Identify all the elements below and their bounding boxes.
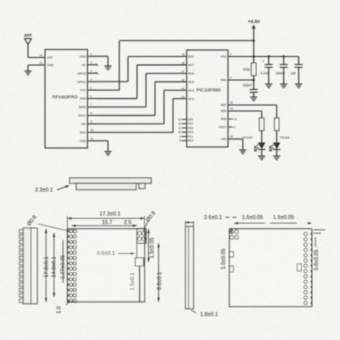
ground (RXLED) xyxy=(258,156,265,160)
power +3.3V xyxy=(248,19,261,32)
dimension 15.7 xyxy=(72,220,137,227)
ground (antenna) xyxy=(24,71,31,75)
wire U2 VSS to ground xyxy=(228,139,243,150)
capacitor 4.7uF xyxy=(261,57,273,85)
ground (100nF) xyxy=(250,97,257,101)
NC mark U1 pin2 xyxy=(96,64,98,66)
wire U1 pin8 to U2 pin16 xyxy=(97,82,187,116)
dimension Ø0.8 right xyxy=(143,210,157,232)
antenna ANT xyxy=(24,34,32,58)
castellation bumps (side view) xyxy=(19,230,23,303)
wire U2 RA3 to 100nF node xyxy=(228,79,254,81)
dimension 8.8±0.1 xyxy=(157,243,163,301)
U1 pin 10 SDO xyxy=(80,128,97,134)
dimension 1.5±0.05 right xyxy=(270,215,312,224)
resistor (TXLED) xyxy=(275,118,279,131)
dimension 1.5±0.05 (top right) xyxy=(147,229,155,262)
node junction rail/VCC xyxy=(252,39,255,42)
U2 pin 14 RC5 xyxy=(182,95,195,101)
U2 pin 12 RA1 xyxy=(178,122,194,126)
ground (4.7uF) xyxy=(265,84,272,88)
pad pitch ticks top right xyxy=(314,230,326,233)
dimension 1.5±0.1 xyxy=(130,267,140,302)
wire U1 pin10 to U2 pin14 xyxy=(97,99,187,133)
U2 pin 13 RA0 xyxy=(178,117,194,121)
U2 pin 20 GND xyxy=(221,135,234,141)
wire U1 pin9 to U2 pin15 xyxy=(97,90,187,124)
U1 pin 5 VCC xyxy=(80,86,97,92)
wire U1 pin4 to U2 pin19 xyxy=(97,57,187,82)
wire ANT to U1 pin ANT xyxy=(28,57,45,59)
U2 pin 1 VDD xyxy=(220,52,232,58)
dimension 1.27±0.05 xyxy=(60,240,66,283)
wire U1 pin6 to U2 pin18 xyxy=(97,65,187,99)
dimension 0.5±0.1 xyxy=(97,251,135,257)
U2 pin 11 RA2 xyxy=(178,126,193,130)
U1 pin 11 GND xyxy=(80,137,97,143)
wire U1 pin11 GND to ground xyxy=(97,141,108,152)
U2 pin 9 RC1 xyxy=(180,134,194,138)
castellated pads left column xyxy=(67,230,76,303)
U1 pin 7 NIRQ xyxy=(79,103,97,109)
resistor (RXLED) xyxy=(260,118,264,131)
wire U1 pin1 GND to ground xyxy=(97,56,108,66)
IC U2 PIC16F690 xyxy=(187,50,228,147)
U2 pin TX feed xyxy=(221,101,234,107)
wire +3.3V rail vertical xyxy=(253,32,255,80)
IC U1 RF4463PRO xyxy=(40,50,88,149)
U1 pin 9 SDI xyxy=(81,120,97,126)
U2 pin 19 RA1 xyxy=(182,53,195,59)
capacitor 100nF xyxy=(276,57,288,85)
wire U1 GND pin to ground xyxy=(28,65,45,71)
node junction rail/VDD xyxy=(252,55,255,58)
LED TXLED xyxy=(270,131,291,157)
dimension 0.8±0.05 xyxy=(314,237,320,270)
bottom view left slots xyxy=(229,252,233,273)
inductor/filter 100p xyxy=(243,63,256,76)
U2 pin 17 RC6 xyxy=(182,70,195,76)
dimension 1.0±0.05 xyxy=(221,228,233,269)
mech side view right module xyxy=(186,227,194,309)
dimension 1.8±0.1 xyxy=(191,310,218,318)
wire VDD rail to cap bank xyxy=(254,56,299,58)
bottom view right pad column xyxy=(304,232,312,304)
U1 pin 6 SDN xyxy=(80,94,97,100)
U2 pin OSC xyxy=(219,125,236,129)
LED RXLED xyxy=(242,131,265,157)
node junction 100nF xyxy=(252,79,255,82)
ground (TXLED) xyxy=(273,156,280,160)
dimension Ø0.8 left xyxy=(26,214,69,231)
mech side view left (pin edge profile) xyxy=(23,228,37,304)
U1 pin 2 NC xyxy=(82,60,97,66)
U1 pin 1 GND xyxy=(80,52,97,58)
ground (1nF) xyxy=(295,84,302,88)
U2 pin 8 RC2 xyxy=(180,139,194,143)
dimension 2.5 xyxy=(124,220,136,226)
U2 pin RX feed xyxy=(221,107,234,113)
capacitor 1nF xyxy=(291,57,303,85)
ground (U1 pin11) xyxy=(104,152,111,156)
ground (U2 VSS) xyxy=(239,150,246,154)
wire U1 pin7 to U2 pin17 xyxy=(97,73,187,107)
U1 pin 4 GPIO1 xyxy=(77,77,97,83)
U2 pin 4 MCLR xyxy=(221,76,232,82)
wire U2 to RXLED branch xyxy=(228,111,262,118)
wire U2 to TXLED branch xyxy=(228,105,277,118)
U2 pin 15 RC4 xyxy=(182,86,195,92)
dimension 1.5±0.05 left xyxy=(226,215,266,224)
U2 pin 18 RC7 xyxy=(182,61,195,67)
RF connector notch with 4 holes xyxy=(137,229,146,244)
dimension 2.6±0.1 xyxy=(186,215,222,227)
NC mark U1 pin3 xyxy=(96,72,98,74)
mech bottom view board xyxy=(229,229,311,307)
edge step detail xyxy=(135,243,143,301)
capacitor 100nF (MCLR node) xyxy=(243,80,258,97)
U2 pin 16 RC3 xyxy=(182,78,195,84)
U2 pin RB6 xyxy=(221,117,237,121)
ground (100nF) xyxy=(280,84,287,88)
mech top view board (17.3 x 17.0) xyxy=(67,229,144,302)
dimension 1.0 xyxy=(57,301,71,314)
dimension 17.0±0.1 xyxy=(44,229,50,302)
wire VCC U1 pin5 to +3.3V rail xyxy=(97,41,254,91)
U2 pin 10 RC0 xyxy=(178,130,194,134)
mech side view top (module edge profile) xyxy=(70,178,152,190)
dimension 17.3±0.1 xyxy=(67,212,144,229)
ground (U1 pin1) xyxy=(104,66,111,70)
dimension 2.3±0.1 xyxy=(35,185,70,193)
U1 pin 3 GPIO2 xyxy=(77,69,97,75)
U1 pin 8 SCLK xyxy=(78,111,97,117)
wire U2 VDD to rail xyxy=(228,56,254,58)
bottom view right slot xyxy=(297,264,301,271)
dimension 14.0±0.1 xyxy=(52,233,58,297)
bottom view corner holes 2x2 xyxy=(230,230,239,239)
